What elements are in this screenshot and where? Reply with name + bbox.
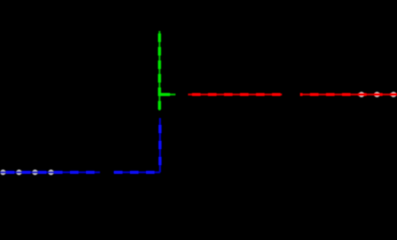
blue baseline bright dashes B [114, 171, 161, 174]
blue riser dim underlay [159, 118, 161, 172]
blue baseline dim underlay B [114, 171, 161, 173]
marker M5 [359, 92, 365, 98]
blue baseline bright dashes A [0, 171, 100, 174]
marker M4 [48, 170, 54, 176]
green vertical dim underlay [159, 31, 161, 111]
green tick dim underlay [160, 94, 176, 96]
marker M3 [32, 170, 38, 176]
marker M7 [391, 92, 397, 98]
red level bright dashes B [300, 93, 397, 96]
red level dim underlay B [300, 94, 397, 96]
marker M1 [0, 170, 6, 176]
green tick bright dash [160, 93, 176, 96]
marker M2 [16, 170, 22, 176]
green vertical bright dashes [158, 31, 161, 111]
red level dim underlay A [188, 94, 282, 96]
marker M6 [374, 92, 380, 98]
red level bright dashes A [188, 93, 282, 96]
blue baseline dim underlay A [0, 171, 100, 173]
blue riser bright dashes [158, 118, 161, 172]
